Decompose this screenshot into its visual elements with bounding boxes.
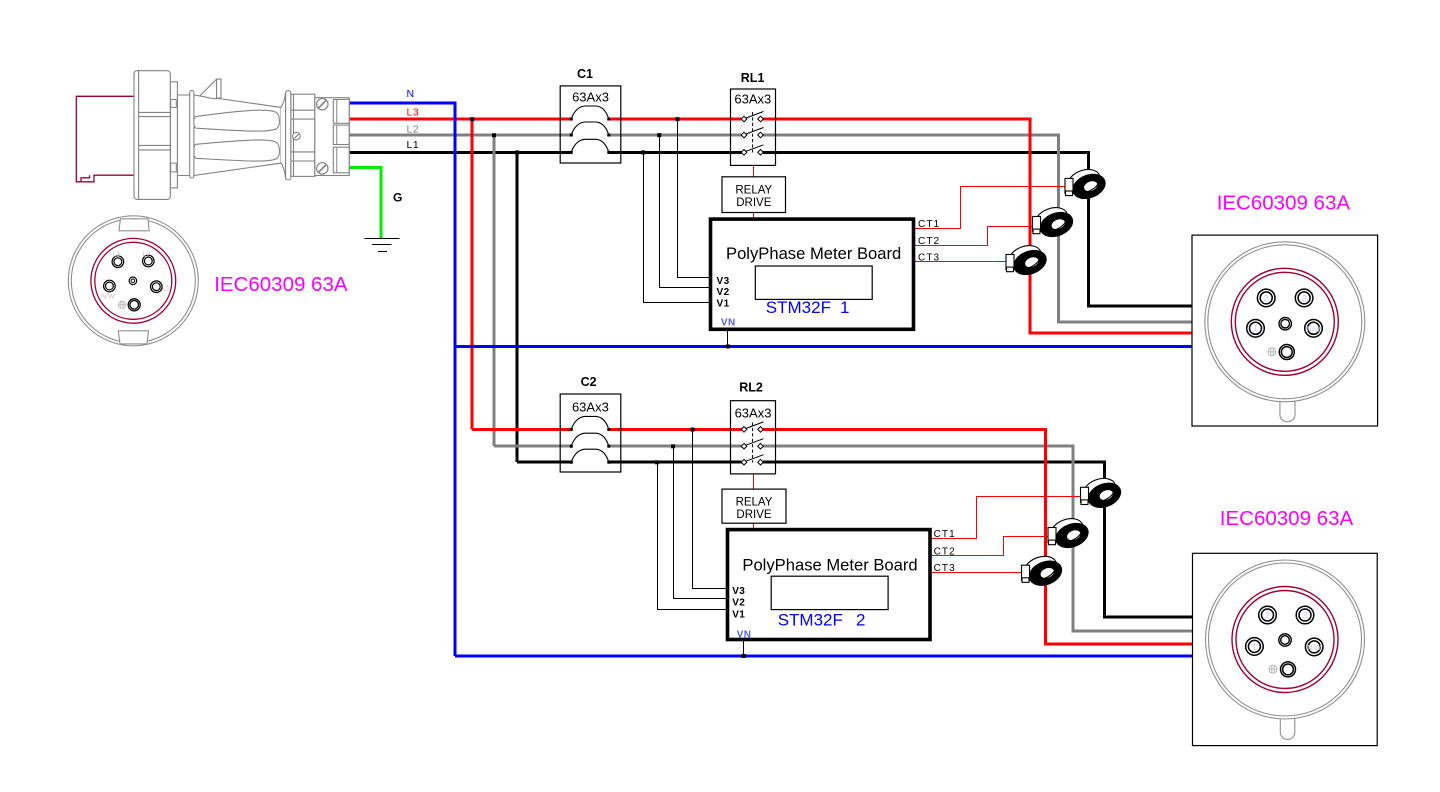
wire L3 (red) from plug to C1	[349, 118, 571, 121]
J1 red rings	[1231, 268, 1338, 375]
face pin labels	[101, 252, 170, 301]
contactor C2	[560, 394, 621, 472]
wire V3 sense ch2	[693, 429, 728, 588]
relay RL2	[731, 401, 776, 474]
J1 pilot pin	[1279, 318, 1291, 330]
wire relay drive link RL1	[753, 165, 755, 176]
wire L1 (black) from plug to C1	[349, 151, 571, 154]
svg-text:L3: L3	[113, 252, 121, 259]
channel 2 wire L1 from drop to C2	[517, 461, 571, 464]
J1 faint pin numbers	[1253, 293, 1321, 333]
svg-text:DRIVE: DRIVE	[736, 197, 771, 209]
svg-text:1: 1	[1252, 642, 1257, 652]
J1 pin L3	[1257, 289, 1275, 307]
svg-text:63Ax3: 63Ax3	[734, 92, 771, 107]
wire CT2 ch1	[914, 227, 1037, 246]
svg-text:N: N	[407, 88, 415, 100]
svg-text:IEC60309 63A: IEC60309 63A	[1220, 507, 1354, 530]
svg-text:V1: V1	[732, 610, 745, 621]
svg-text:N/W: N/W	[1307, 327, 1321, 334]
wire L3 from RL1 to socket J1	[763, 119, 1192, 333]
junction L2/V2 tap ch1	[657, 133, 661, 137]
face pin N/W	[104, 280, 116, 292]
svg-text:L3: L3	[407, 106, 420, 118]
current transformer CT3 ch1 (on L3)	[1005, 240, 1050, 281]
P1 bell disc	[286, 91, 291, 180]
wire N bottom branch to socket J2	[455, 655, 1193, 658]
svg-text:V3: V3	[732, 586, 745, 597]
junction L1/V1 tap ch1	[641, 150, 645, 154]
wire L1 from RL1 to socket J1	[763, 152, 1192, 306]
svg-text:1: 1	[840, 298, 849, 317]
P1 top fin	[200, 79, 221, 99]
wire CT1 ch2	[930, 497, 1083, 539]
J2 pilot pin	[1279, 634, 1291, 646]
J2 keyway	[1280, 718, 1295, 740]
svg-text:IEC60309 63A: IEC60309 63A	[214, 273, 348, 296]
J1 earth pin	[1279, 345, 1294, 360]
J2 earth pin	[1281, 662, 1296, 677]
current transformer CT1 ch1 (on L1)	[1064, 164, 1109, 205]
P1 bell flare	[281, 92, 286, 179]
svg-text:STM32F: STM32F	[778, 611, 843, 630]
svg-text:1: 1	[1253, 324, 1258, 334]
svg-text:PolyPhase Meter Board: PolyPhase Meter Board	[742, 556, 917, 575]
J2 earth marker	[1269, 665, 1277, 673]
junction L2/drop	[492, 133, 496, 137]
svg-text:L1: L1	[162, 286, 170, 293]
P1 screw top	[317, 99, 328, 110]
wire L1 vertical drop to channel 2	[516, 152, 519, 462]
J1 pin N	[1305, 320, 1323, 338]
face earth marker	[118, 301, 125, 308]
face pin L1	[151, 281, 163, 293]
svg-text:CT2: CT2	[918, 236, 940, 247]
channel 2 wire L2 from C2 to RL2	[609, 445, 742, 448]
junction VN2/N	[742, 654, 746, 658]
J1 body circles	[1205, 242, 1365, 402]
svg-text:2: 2	[856, 611, 865, 630]
current transformer CT2 ch1 (on L2)	[1032, 202, 1077, 243]
LCD display U2	[771, 576, 888, 609]
svg-text:RELAY: RELAY	[735, 184, 772, 196]
svg-text:L1: L1	[407, 139, 420, 151]
svg-text:VN: VN	[737, 630, 752, 641]
wire L2 (grey) from plug to C1	[349, 134, 571, 137]
ground	[365, 239, 400, 252]
RL2 pole L2	[741, 439, 763, 449]
J2 faint pin numbers	[1252, 610, 1322, 652]
svg-text:C1: C1	[577, 67, 593, 81]
relay RL1	[731, 89, 776, 165]
junction L1/drop	[515, 150, 519, 154]
svg-text:CT1: CT1	[934, 529, 956, 540]
svg-text:N/W: N/W	[101, 294, 115, 301]
relay drive box 1	[722, 177, 786, 213]
meter board U1	[711, 219, 914, 329]
RL1 pole L1	[741, 145, 763, 155]
current transformer CT2 ch2 (on L2)	[1047, 513, 1092, 554]
P1 neck	[177, 94, 193, 96]
svg-text:G: G	[393, 191, 402, 205]
P1 contact cylinder	[291, 94, 315, 176]
wire N branch to socket J1	[455, 345, 1192, 348]
J2 pin L3	[1259, 606, 1277, 624]
svg-text:2: 2	[1265, 610, 1270, 620]
wire V1 sense ch2	[658, 462, 728, 609]
socket J2 (IEC60309 63A outlet, channel 2)	[1193, 553, 1378, 745]
svg-text:N/W: N/W	[1307, 645, 1321, 652]
J1 earth marker	[1268, 348, 1276, 356]
svg-text:L2: L2	[143, 252, 151, 259]
svg-text:C2: C2	[581, 375, 597, 389]
J2 pin L2	[1296, 606, 1314, 624]
wire L2 from C1 to RL1	[609, 134, 742, 137]
face outer circles	[68, 216, 198, 346]
svg-text:RL2: RL2	[739, 381, 763, 395]
svg-text:63Ax3: 63Ax3	[735, 406, 772, 421]
channel 2 wire L3 from drop to C2	[472, 428, 571, 431]
LCD display U1	[755, 266, 872, 299]
junction L2/V2 tap ch2	[671, 444, 675, 448]
P1 rear flange	[134, 71, 170, 200]
J2 body circles	[1206, 560, 1365, 719]
svg-text:RELAY: RELAY	[736, 497, 773, 509]
channel 2 wire L1 from RL2 to socket J2	[763, 462, 1193, 617]
P1 screw small	[293, 132, 301, 140]
plug P1 front face view	[68, 216, 198, 346]
junction L3/drop	[470, 117, 474, 121]
junction L3/V3 tap ch1	[675, 117, 679, 121]
face earth pin	[128, 299, 140, 311]
svg-text:3: 3	[1302, 293, 1307, 303]
svg-text:V1: V1	[717, 299, 730, 310]
face bottom tab	[118, 331, 148, 344]
svg-text:L2: L2	[407, 123, 420, 135]
svg-text:63Ax3: 63Ax3	[572, 400, 609, 415]
junction L3/V3 tap ch2	[691, 428, 695, 432]
wire G (green) from plug to ground	[349, 167, 381, 238]
wire V3 sense ch1 (L3 tap to meter V3)	[678, 119, 711, 278]
wire CT3 ch2	[930, 572, 1024, 574]
RL1 pole L2	[741, 128, 763, 138]
junction L1/V1 tap ch2	[655, 460, 659, 464]
svg-text:V2: V2	[717, 287, 730, 298]
RL2 pole L1	[741, 455, 763, 465]
svg-text:VN: VN	[721, 318, 736, 329]
wire L3 vertical drop to channel 2	[471, 119, 474, 429]
P1 grip recess upper	[194, 110, 280, 131]
svg-text:V3: V3	[717, 276, 730, 287]
face red rings	[91, 238, 176, 323]
current transformer CT1 ch2 (on L1)	[1080, 473, 1125, 514]
J2 pin N	[1305, 638, 1323, 656]
P1 terminal housing	[315, 98, 349, 176]
svg-text:PolyPhase Meter Board: PolyPhase Meter Board	[726, 244, 901, 263]
J1 pin L1	[1247, 320, 1265, 338]
svg-text:CT3: CT3	[934, 563, 956, 574]
wire L2 vertical drop to channel 2	[493, 135, 496, 446]
channel 2 wire L2 from RL2 to socket J2	[763, 446, 1193, 631]
P1 screw bottom	[317, 163, 328, 174]
plug P1 (IEC60309 63A plug, side view)	[76, 71, 349, 200]
wire VN1 to N bus	[727, 329, 729, 346]
wire CT1 ch1	[914, 187, 1067, 229]
svg-text:STM32F: STM32F	[766, 298, 831, 317]
P1 cable boot outline (dark red)	[76, 96, 134, 182]
wire CT3 ch1	[914, 261, 1006, 263]
RL1 pole L3	[741, 112, 763, 122]
junction VN1/N	[726, 344, 730, 348]
P1 terminal cell L2	[333, 125, 349, 144]
wire L2 from RL1 to socket J1	[763, 135, 1192, 322]
face pilot pin	[129, 277, 137, 285]
RL2 pole L3	[741, 422, 763, 432]
svg-text:CT2: CT2	[934, 546, 956, 557]
wire relay drive to meter board 2	[753, 523, 755, 529]
channel 2 wire L1 from C2 to RL2	[609, 461, 742, 464]
face pin L2	[143, 255, 155, 267]
socket J1 (IEC60309 63A outlet, channel 1)	[1192, 235, 1378, 426]
wire L1 from C1 to RL1	[609, 151, 742, 154]
wire V1 sense ch1	[644, 152, 711, 302]
svg-text:CT1: CT1	[918, 219, 940, 230]
wire V2 sense ch2	[674, 446, 728, 598]
P1 collar disc	[190, 91, 194, 179]
svg-text:CT3: CT3	[918, 252, 940, 263]
svg-text:IEC60309 63A: IEC60309 63A	[1217, 192, 1351, 215]
wire N (blue) top run from plug to vertical drop	[349, 103, 455, 656]
wire relay drive link RL2	[753, 474, 755, 489]
P1 grip recess lower	[194, 140, 280, 161]
P1 adapter block	[170, 82, 177, 188]
channel 2 wire L2 from drop to C2	[494, 445, 571, 448]
P1 tapered grip body	[194, 95, 282, 176]
svg-text:2: 2	[1264, 293, 1269, 303]
channel 2 wire L3 from C2 to RL2	[609, 428, 742, 431]
svg-text:RL1: RL1	[741, 71, 765, 85]
relay drive box 2	[722, 489, 786, 523]
J1 pin L2	[1295, 289, 1313, 307]
channel 2 wire L3 from RL2 to socket J2	[763, 429, 1193, 644]
meter board U2	[728, 530, 931, 640]
svg-text:63Ax3: 63Ax3	[572, 90, 609, 105]
J1 keyway	[1280, 400, 1295, 421]
P1 terminal cell L1	[333, 147, 349, 173]
face top tab	[119, 219, 149, 231]
wire L3 from C1 to RL1	[609, 118, 742, 121]
current transformer CT3 ch2 (on L3)	[1021, 551, 1066, 592]
wire VN2 to N bus	[743, 640, 745, 657]
svg-text:V2: V2	[732, 597, 745, 608]
J2 red rings	[1232, 587, 1338, 693]
wire V2 sense ch1	[660, 135, 711, 288]
wire CT2 ch2	[930, 537, 1053, 556]
svg-text:DRIVE: DRIVE	[736, 509, 771, 521]
wire relay drive to meter board 1	[753, 213, 755, 220]
contactor C1	[560, 86, 621, 163]
svg-text:3: 3	[1302, 610, 1307, 620]
J2 pin L1	[1246, 638, 1264, 656]
P1 terminal cell N	[333, 100, 349, 124]
face pin L3	[112, 256, 124, 268]
